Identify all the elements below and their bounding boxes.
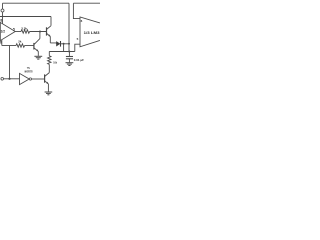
wire from top rail down to U2 top input (73, 3, 80, 18)
svg-text:0.01 μF: 0.01 μF (74, 58, 85, 62)
capacitor C1 plates (66, 56, 73, 58)
svg-text:1/2: 1/2 (1, 30, 6, 34)
svg-text:10k: 10k (53, 61, 57, 65)
op-amp U2 triangle 1/3 LM (clipped at right) (80, 17, 100, 47)
node dot at J1 cross (2, 16, 4, 18)
wire feedback vertical to inverter input node (9, 46, 11, 79)
node junction dot Q1 base / Q3 collector (39, 31, 41, 33)
wire inverter output to Q2 base (32, 78, 45, 80)
inverter U3 triangle (20, 73, 30, 84)
wire R3 to Q2 collector (48, 64, 50, 72)
wire emitter to diode (50, 42, 56, 45)
Q2 collector (45, 73, 50, 77)
wire Q3 collector up to Q1 base node (39, 32, 41, 39)
wire R2 to Q3 base (25, 45, 34, 47)
wire top rail left segment (3, 2, 70, 4)
resistor R3 10k vertical (48, 56, 51, 65)
Q1 emitter with arrow (47, 33, 51, 36)
resistor R2 2k (16, 44, 25, 47)
wire lower rail up to U2 inverting input (75, 44, 80, 51)
svg-text:1/3 LM3: 1/3 LM3 (84, 31, 100, 35)
wire Q1 emitter down (49, 36, 51, 43)
wire branch down from D1 node to lower rail (63, 44, 65, 52)
wire lower rail y=51.5 (49, 51, 75, 53)
svg-text:INVERTER: INVERTER (24, 70, 32, 73)
wire Q3 emitter down (37, 51, 39, 56)
wire top rail right segment (73, 2, 100, 4)
svg-text:5: 5 (13, 27, 15, 31)
wire down from rail to Q1 collector (50, 17, 52, 26)
wire Q2 emitter down (47, 84, 49, 92)
Q1 collector (47, 26, 51, 30)
inverter U3 bubble (29, 78, 31, 80)
terminal J1 (top-left input terminal circle) (1, 9, 4, 12)
svg-text:6: 6 (81, 19, 83, 23)
Q3 emitter with arrow (34, 48, 38, 51)
ground G2 (below Q3) (34, 55, 42, 57)
wire down from lower rail to resistor R3 (48, 52, 50, 56)
wire feedback node to 2k resistor (10, 45, 17, 47)
ground G3 (below C1) (66, 62, 74, 64)
op-amp U1 triangle 1/2 (0, 22, 15, 40)
svg-text:2k: 2k (18, 39, 22, 43)
wire vertical from top rail down to diode node (68, 3, 70, 44)
node dot at vertical rail (68, 43, 70, 45)
wire vertical continues to lower rail (68, 44, 70, 52)
wire U1 inverting input down (1, 40, 3, 46)
transistor Q3 bar (33, 43, 35, 50)
node dot capacitor tap (68, 51, 70, 53)
resistor R1 3.3k (21, 30, 30, 33)
wire inverting to feedback node (2, 45, 10, 47)
transistor Q1 bar (46, 27, 48, 35)
node dot feedback/inverter junction (8, 78, 10, 80)
wire from J1 down to collector rail (2, 12, 4, 17)
wire op-amp U1 non-inverting input (2, 17, 4, 24)
transistor Q2 bar (44, 74, 46, 82)
terminal J2 (bottom-left terminal circle) (1, 78, 4, 81)
wire cap bottom lead (68, 59, 70, 63)
Q3 collector (34, 39, 40, 45)
Q2 emitter with arrow (45, 81, 49, 84)
diode D1 (56, 41, 60, 46)
wire cap top lead (68, 52, 70, 57)
node dot D1/branch (63, 43, 65, 45)
wire D1 cathode to node (61, 43, 70, 45)
wire from J1 up to top rail (2, 3, 4, 9)
svg-text:5: 5 (77, 37, 79, 41)
wire J2 to inverter input (4, 78, 20, 80)
wire R1 to Q1 base (30, 31, 47, 33)
svg-text:8: 8 (0, 19, 2, 23)
wire U1 output (15, 31, 21, 33)
svg-text:3.3k: 3.3k (21, 26, 27, 30)
ground G1 (below Q2) (45, 91, 53, 93)
wire collector rail y=16.5 (0, 16, 51, 18)
